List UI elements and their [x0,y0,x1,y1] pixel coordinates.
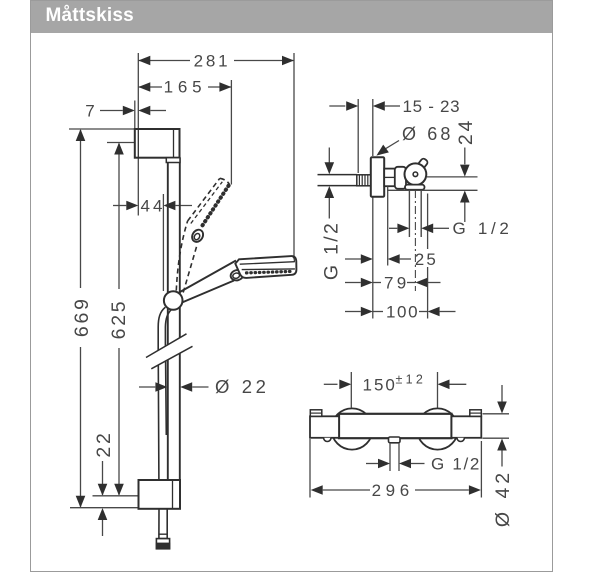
svg-text:25: 25 [415,250,438,269]
svg-text:7: 7 [85,102,94,121]
outlet thread lines [409,190,421,237]
dimension diameter 42 [483,385,515,527]
ext line 25 right [387,187,389,266]
left knob [310,416,339,438]
hand shower handle [179,261,236,303]
svg-text:281: 281 [194,52,231,71]
dimension 7 [85,101,166,130]
dimension diameter 22 [139,376,270,397]
svg-text:44: 44 [141,197,166,216]
ext line wall surface [357,99,359,173]
slider ball [164,291,183,310]
ext line 281 right [293,53,295,258]
thread pipe [357,175,371,186]
svg-text:22: 22 [93,430,115,457]
ext line bracket centre top [107,142,135,144]
dimension 25 [345,250,438,269]
union nut [384,169,395,187]
svg-text:100: 100 [386,302,419,321]
s-connection circles [331,408,372,449]
dimension 15-23 [329,97,460,116]
svg-text:G 1/2: G 1/2 [321,221,343,280]
dimension 44 [113,197,192,216]
ext line outlet axis [387,189,478,191]
dimension 165 [138,78,231,97]
dimension 150 +-12 [324,372,467,394]
svg-text:Ø 68: Ø 68 [402,124,453,144]
centre line [414,190,416,291]
svg-text:165: 165 [164,78,207,97]
hook tab [417,158,428,170]
break mark [146,334,193,369]
ball joint [405,163,427,185]
svg-text:79: 79 [384,273,410,292]
ext line inlet axis [427,176,478,178]
dimension G 1/2 outlet [389,219,513,238]
dimension 22 [93,430,115,536]
right tab [470,410,482,417]
svg-text:296: 296 [372,481,414,500]
screw bumps [324,438,465,442]
svg-text:625: 625 [108,299,130,340]
svg-text:±12: ±12 [396,372,427,386]
ext line 165 right [230,80,232,185]
wall bracket top [135,129,180,163]
dashed position cone curl [190,228,205,244]
dimension 625 [108,143,130,496]
svg-text:Ø 42: Ø 42 [492,469,514,527]
ext line bar bottom [70,507,139,509]
label diameter 68 [374,124,454,159]
svg-text:669: 669 [71,296,93,337]
svg-text:24: 24 [455,118,477,145]
dimension 79 [345,273,441,292]
bottom bracket [139,480,181,509]
outlet nub [389,437,401,443]
dimension 296 [310,439,481,500]
svg-text:15 - 23: 15 - 23 [403,97,461,116]
escutcheon [371,157,384,197]
dimension 281 [138,52,294,71]
ext line bottom bracket centre [93,495,139,497]
hose [158,307,171,539]
thermostat body [339,414,452,438]
support bar [405,185,425,190]
ext line escutcheon face [372,99,374,319]
dimension 669 [71,129,93,508]
ext line holder axis [162,194,164,291]
pivot body [395,167,406,189]
ext line bar top [69,128,136,130]
ext lines 150 [351,372,437,408]
dimension 24 [455,118,477,222]
svg-text:Ø 22: Ø 22 [215,376,270,397]
dimension G 1/2 bottom [366,443,481,474]
ball centre dot [413,172,418,177]
dashed handle position [176,178,229,292]
label G 1/2 inlet [321,148,343,281]
right knob [452,416,482,438]
left tab [310,410,322,417]
dashed head spray face [201,186,229,229]
svg-text:G 1/2: G 1/2 [453,219,513,238]
hand shower head [235,256,296,278]
ext line wall reference [137,53,139,216]
hose end fitting [156,534,169,549]
ext line ball edge [427,194,429,319]
inlet pipe lines [318,175,357,186]
dimension 100 [345,302,456,321]
svg-text:150: 150 [363,375,397,394]
svg-text:G 1/2: G 1/2 [431,455,481,474]
shower rail bar [168,158,180,480]
hand shower cone curl [230,269,245,282]
